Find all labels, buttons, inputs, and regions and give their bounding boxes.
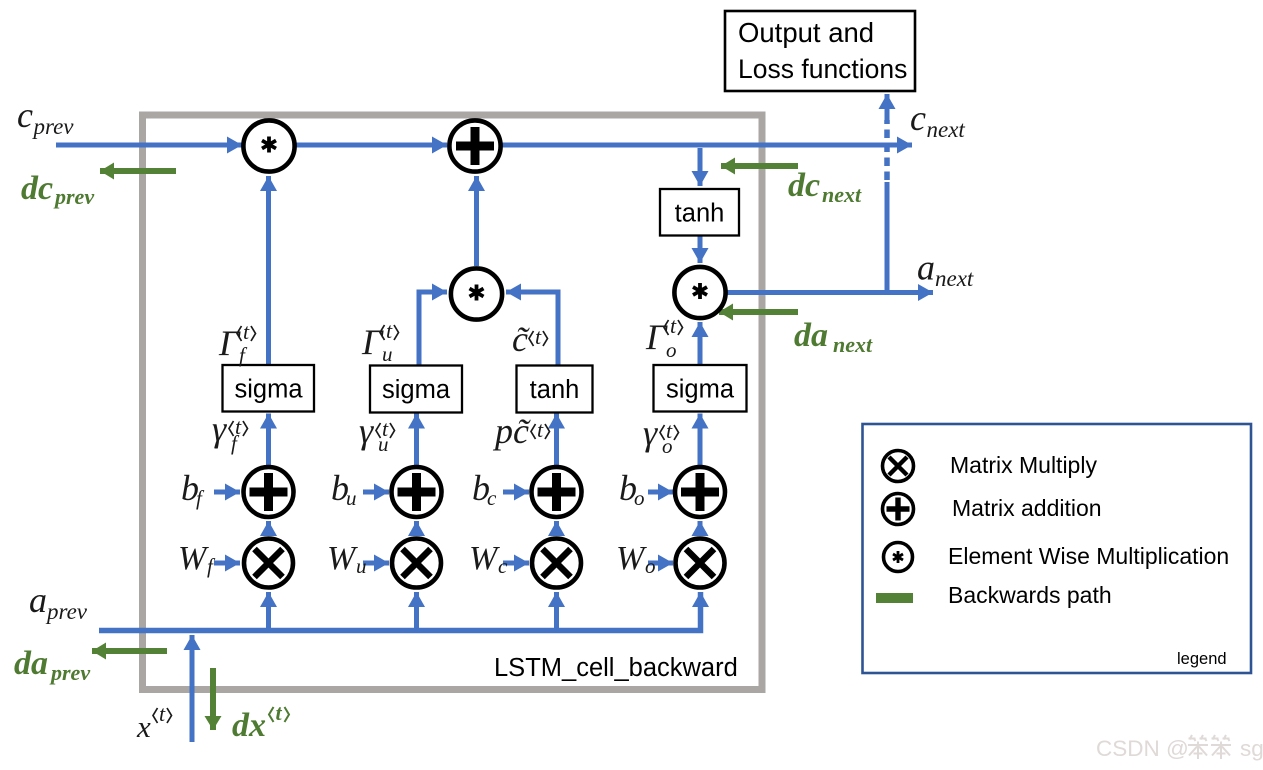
svg-text:next: next bbox=[822, 182, 862, 207]
op circle multw2 matrix multiply bbox=[392, 539, 441, 588]
wire x input up to a line bbox=[190, 635, 195, 742]
svg-text:sigma: sigma bbox=[666, 376, 735, 404]
svg-text:γ: γ bbox=[643, 413, 658, 453]
wire b_c stub bbox=[503, 490, 529, 495]
label b_f bbox=[181, 468, 205, 510]
wire a line up to multw2 bbox=[414, 592, 419, 628]
wire junction vertical solid bbox=[885, 182, 890, 293]
svg-text:tanh: tanh bbox=[530, 376, 580, 404]
op circle addr4 bbox=[675, 467, 725, 517]
svg-text:prev: prev bbox=[53, 184, 94, 209]
svg-text:c: c bbox=[487, 486, 497, 510]
svg-text:pc̃: pc̃ bbox=[492, 411, 532, 451]
svg-text:t: t bbox=[159, 701, 166, 726]
label da_next green bbox=[794, 317, 873, 357]
wire a_prev line bbox=[99, 592, 701, 631]
svg-text:γ: γ bbox=[212, 409, 227, 449]
tanh4 box bbox=[660, 189, 739, 236]
svg-text:o: o bbox=[662, 434, 673, 458]
wire sigma1 up to mult1 bbox=[266, 176, 271, 364]
svg-text:next: next bbox=[927, 117, 966, 142]
wire addr2 up to sigma2 bbox=[414, 414, 419, 466]
svg-text:f: f bbox=[239, 343, 248, 367]
svg-text:t: t bbox=[243, 319, 250, 344]
label Gamma_u_t bbox=[361, 318, 399, 366]
svg-text:sg: sg bbox=[1240, 736, 1263, 761]
label dx_t green bbox=[232, 700, 289, 744]
wire junction vertical dashed bbox=[884, 120, 890, 180]
wire b_u stub bbox=[363, 490, 389, 495]
svg-text:W: W bbox=[327, 540, 358, 577]
wire multw4 up to addr4 bbox=[698, 521, 703, 536]
label W_c bbox=[469, 540, 508, 578]
label W_o bbox=[616, 540, 656, 578]
svg-text:W: W bbox=[469, 540, 500, 577]
label W_u bbox=[327, 540, 367, 578]
svg-text:prev: prev bbox=[32, 114, 75, 139]
op circle addr3 bbox=[532, 467, 582, 517]
green arrow dc_next bbox=[721, 163, 798, 169]
svg-text:Γ: Γ bbox=[361, 322, 384, 362]
green arrow dc_prev bbox=[100, 168, 176, 174]
svg-text:o: o bbox=[645, 554, 656, 578]
svg-text:u: u bbox=[356, 554, 367, 578]
svg-text:next: next bbox=[833, 332, 873, 357]
op circle addr1 bbox=[244, 467, 294, 517]
wire sigma2 to mult2 left branch bbox=[419, 292, 447, 365]
legend icon element wise multiplication bbox=[884, 543, 913, 572]
op circle add1 matrix addition bbox=[449, 120, 500, 171]
label b_c bbox=[472, 468, 497, 510]
wire mult2 up to add1 bbox=[474, 176, 479, 266]
wire mult1 to add1 bbox=[296, 143, 447, 148]
label Gamma_o_t bbox=[645, 313, 683, 362]
svg-text:da: da bbox=[14, 645, 48, 682]
svg-text:o: o bbox=[666, 338, 677, 362]
op circle mult1 elementwise bbox=[243, 120, 294, 171]
svg-text:Γ: Γ bbox=[645, 317, 668, 357]
svg-text:W: W bbox=[616, 540, 647, 577]
wire W_f stub bbox=[214, 561, 240, 566]
label dc_prev green bbox=[21, 170, 94, 209]
svg-text:Backwards path: Backwards path bbox=[948, 582, 1112, 608]
svg-text:u: u bbox=[382, 342, 393, 366]
svg-text:c̃: c̃ bbox=[512, 319, 531, 359]
green arrow dx down bbox=[210, 668, 216, 730]
op circle multw3 matrix multiply bbox=[532, 539, 581, 588]
label gamma_u_t bbox=[359, 411, 395, 456]
green arrow da_prev bbox=[92, 648, 167, 654]
wire multw1 up to addr1 bbox=[266, 521, 271, 536]
tanh3 box bbox=[517, 366, 593, 413]
output and loss functions box bbox=[725, 11, 915, 91]
label ctilde_t bbox=[512, 319, 548, 359]
svg-text:u: u bbox=[346, 486, 357, 510]
LSTM cell gray border box bbox=[143, 115, 763, 690]
wire tanh4 down to mult3 bbox=[698, 236, 703, 263]
sigma4 box bbox=[654, 365, 747, 412]
wire W_o stub bbox=[648, 561, 673, 566]
svg-text:CSDN @: CSDN @ bbox=[1096, 736, 1189, 761]
wire a line up to multw3 bbox=[554, 592, 559, 628]
svg-text:t: t bbox=[276, 700, 283, 725]
svg-text:Γ: Γ bbox=[218, 323, 241, 363]
wire multw2 up to addr2 bbox=[414, 521, 419, 536]
svg-text:Loss functions: Loss functions bbox=[738, 54, 907, 84]
wire c_prev input bbox=[56, 143, 242, 148]
watermark CSDN bbox=[1096, 735, 1263, 761]
svg-text:f: f bbox=[207, 554, 216, 578]
green arrow da_next bbox=[719, 309, 798, 315]
wire addr1 up to sigma1 bbox=[266, 414, 271, 466]
svg-text:f: f bbox=[196, 486, 205, 510]
wire multw3 up to addr3 bbox=[554, 521, 559, 536]
svg-text:c: c bbox=[17, 95, 33, 135]
op circle mult2 elementwise bbox=[451, 268, 502, 319]
svg-text:t: t bbox=[535, 324, 542, 349]
wire c line down to tanh4 bbox=[698, 148, 703, 186]
svg-text:γ: γ bbox=[359, 411, 374, 451]
svg-text:next: next bbox=[935, 266, 974, 291]
svg-text:o: o bbox=[634, 486, 645, 510]
label b_o bbox=[619, 468, 645, 510]
label da_prev green bbox=[14, 645, 90, 685]
svg-text:Element Wise Multiplication: Element Wise Multiplication bbox=[948, 543, 1229, 569]
svg-text:a: a bbox=[29, 580, 47, 620]
label W_f bbox=[178, 540, 216, 578]
wire b_f stub bbox=[214, 490, 240, 495]
wire b_o stub bbox=[648, 490, 673, 495]
svg-text:t: t bbox=[386, 318, 393, 343]
legend green backwards path dash bbox=[876, 593, 913, 603]
wire W_u stub bbox=[363, 561, 389, 566]
svg-text:x: x bbox=[136, 709, 151, 744]
wire a line up to multw1 bbox=[266, 592, 271, 628]
svg-text:Matrix Multiply: Matrix Multiply bbox=[950, 452, 1097, 478]
label gamma_f_t bbox=[212, 409, 248, 455]
op circle addr2 bbox=[392, 467, 442, 517]
label a_prev bbox=[29, 580, 88, 624]
wire add1 to c_next output bbox=[502, 143, 912, 148]
svg-text:Matrix addition: Matrix addition bbox=[952, 495, 1102, 521]
svg-text:da: da bbox=[794, 317, 828, 354]
svg-text:legend: legend bbox=[1177, 650, 1227, 668]
wire sigma4 up to mult3 bbox=[698, 322, 703, 364]
legend icon matrix multiply bbox=[883, 451, 914, 482]
svg-text:sigma: sigma bbox=[382, 376, 451, 404]
svg-text:LSTM_cell_backward: LSTM_cell_backward bbox=[494, 654, 738, 682]
svg-text:W: W bbox=[178, 540, 209, 577]
svg-text:t: t bbox=[537, 417, 544, 442]
sigma1 box bbox=[223, 365, 315, 412]
wire addr3 up to tanh3 bbox=[554, 414, 559, 466]
svg-text:dc: dc bbox=[788, 167, 820, 204]
sigma2 box bbox=[370, 366, 462, 413]
wire tanh3 to mult2 right branch bbox=[506, 292, 558, 365]
op circle multw4 matrix multiply bbox=[676, 539, 725, 588]
wire a_next output bbox=[727, 290, 933, 295]
svg-text:prev: prev bbox=[49, 660, 90, 685]
label c_prev bbox=[17, 95, 74, 139]
wire W_c stub bbox=[503, 561, 529, 566]
label x_t input bbox=[136, 701, 172, 744]
svg-text:a: a bbox=[917, 248, 935, 288]
legend box bbox=[863, 424, 1252, 673]
wire addr4 up to sigma4 bbox=[698, 414, 703, 466]
label pctilde_t bbox=[492, 411, 550, 451]
label Gamma_f_t bbox=[218, 319, 256, 367]
op circle mult3 elementwise bbox=[674, 267, 725, 318]
svg-text:c: c bbox=[910, 98, 926, 138]
label b_u bbox=[331, 468, 357, 510]
svg-text:dx: dx bbox=[232, 707, 266, 744]
op circle multw1 matrix multiply bbox=[244, 539, 293, 588]
svg-text:u: u bbox=[378, 432, 389, 456]
svg-text:c: c bbox=[498, 554, 508, 578]
svg-text:tanh: tanh bbox=[675, 200, 725, 228]
legend icon matrix addition bbox=[883, 494, 914, 525]
label c_next bbox=[910, 98, 965, 142]
label dc_next green bbox=[788, 167, 862, 207]
svg-text:prev: prev bbox=[45, 599, 88, 624]
svg-text:t: t bbox=[670, 313, 677, 338]
label a_next bbox=[917, 248, 974, 292]
wire junction arrow into output box bbox=[885, 94, 890, 122]
svg-text:dc: dc bbox=[21, 170, 53, 207]
svg-text:sigma: sigma bbox=[234, 376, 303, 404]
label gamma_o_t bbox=[643, 413, 679, 458]
svg-text:Output and: Output and bbox=[738, 17, 874, 48]
